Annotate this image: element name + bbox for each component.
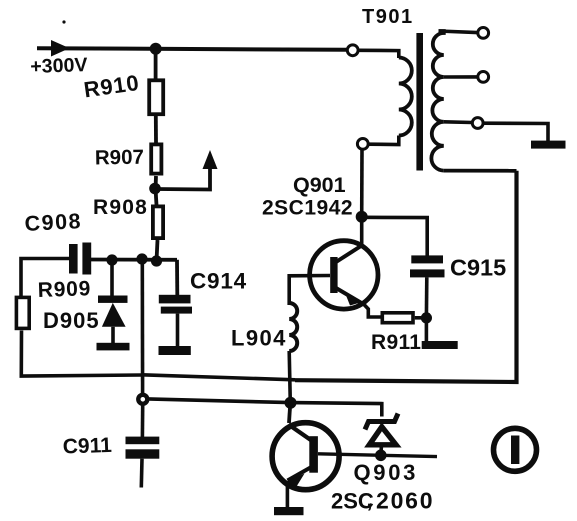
ground (Q903) — [274, 507, 304, 515]
wire: main vertical (bus C down to ring node) — [141, 259, 145, 394]
wire: secondary tap 2 — [444, 75, 478, 79]
wire: secondary tap 3 to ground — [444, 120, 472, 124]
node ring (C911 junction) — [138, 395, 147, 404]
transistor Q903 — [272, 423, 339, 490]
wire: Q901 emitter to R911 — [364, 305, 381, 318]
wire: node B to up-arrow — [155, 160, 210, 190]
ground (D905) — [97, 343, 130, 351]
svg-text:,: , — [367, 487, 373, 512]
wire: bus A (right segment) to right vertical — [295, 171, 517, 382]
node D (L904/Q903 collector/bus B) — [285, 397, 297, 409]
resistor R909 — [16, 297, 29, 328]
wire: primary coil bottom to bottom terminal — [369, 136, 399, 145]
node A (junction top rail / R910) — [150, 43, 162, 55]
T901 primary winding — [399, 58, 412, 136]
svg-text:C908: C908 — [24, 209, 83, 236]
Q901 emitter lead with arrow — [336, 288, 364, 305]
T901 primary top terminal — [347, 45, 358, 56]
wire: R911 to C915 node — [415, 316, 427, 320]
T901 secondary terminal 2 — [478, 72, 489, 83]
svg-text:D905: D905 — [43, 308, 100, 333]
svg-text:Q903: Q903 — [354, 460, 419, 485]
svg-text:R908: R908 — [93, 196, 148, 219]
inductor L904 — [289, 303, 297, 351]
wire: +300V top rail — [37, 48, 347, 50]
wire: Q903 emitter to ground — [286, 482, 290, 508]
capacitor C911 — [126, 437, 160, 445]
wire: R907 to node B — [154, 176, 158, 189]
resistor R908 — [153, 206, 163, 238]
wire: R908 to bus C — [157, 240, 158, 261]
wire: primary top terminal to coil — [358, 50, 399, 58]
svg-text:L904: L904 — [231, 326, 287, 351]
svg-text:R911: R911 — [371, 331, 421, 354]
wire: secondary bottom to right vertical — [444, 169, 517, 173]
wire: bus B (ring to zener corner) — [148, 399, 382, 417]
node Q901 collector — [356, 211, 368, 223]
svg-text:C914: C914 — [190, 269, 247, 294]
wire: node A to R910 — [154, 49, 158, 79]
Q901 collector lead — [336, 245, 363, 262]
Q901 base wire to L904 — [289, 276, 330, 306]
wire: ring down to C911 — [141, 404, 145, 437]
node zener/base — [375, 450, 387, 462]
T901 secondary winding — [431, 31, 443, 171]
wire: secondary top tap — [439, 31, 478, 33]
speck — [62, 20, 65, 23]
capacitor C914 — [159, 295, 191, 304]
transistor Q901 — [310, 241, 378, 309]
diode D905 — [110, 260, 114, 296]
arrow on +300V rail — [42, 42, 67, 56]
wire: R909 bottom to bus A — [21, 331, 142, 377]
node D905 top — [106, 254, 117, 265]
wire: node down to ground — [425, 318, 429, 341]
Q901 base bar — [330, 257, 337, 293]
node C908-left wire to R909 — [21, 259, 69, 297]
ground (secondary tap 3) — [531, 141, 566, 149]
svg-text:R909: R909 — [37, 277, 91, 302]
wire: bus A (left segment) — [142, 375, 295, 380]
Q903 base bar — [309, 436, 318, 473]
svg-text:+300V: +300V — [30, 54, 88, 78]
Q903 base wire with zener node — [318, 454, 437, 457]
wire: node B to R908 — [156, 189, 157, 206]
wire: collector node to C915 — [362, 217, 428, 256]
svg-text:C915: C915 — [450, 255, 506, 281]
svg-text:T901: T901 — [362, 6, 414, 28]
resistor R907 — [151, 144, 161, 173]
wire: node D down to Q903 — [289, 403, 290, 423]
svg-text:2SC1942: 2SC1942 — [262, 197, 353, 220]
wire: L904 bottom through bus A to node D — [289, 351, 290, 403]
wire: R910 to R907 — [154, 116, 158, 143]
node R908 bottom — [151, 255, 162, 266]
resistor R910 — [149, 80, 163, 114]
T901 primary bottom terminal — [357, 139, 368, 150]
T901 secondary terminal 3 — [472, 118, 483, 129]
node main-vertical top — [136, 253, 147, 264]
marker circled 1 — [494, 428, 537, 471]
svg-text:2060: 2060 — [376, 488, 434, 514]
Q903 collector lead — [289, 425, 312, 441]
node B (junction R907/R908/arrow branch) — [149, 183, 161, 195]
Q903 emitter lead with arrow — [288, 468, 311, 481]
ground (C914) — [159, 346, 191, 355]
resistor R911 — [382, 313, 413, 323]
T901 core — [416, 33, 423, 171]
arrow up (to screen) — [203, 150, 218, 169]
capacitor C908 — [69, 244, 78, 274]
zener diode — [365, 414, 398, 430]
wire: primary bottom terminal down to Q901 collector node — [360, 149, 364, 217]
ground (R911) — [422, 341, 458, 349]
wire: bus C (C908 right to C914 corner) — [91, 258, 177, 262]
svg-text:R907: R907 — [95, 146, 144, 170]
wire: bus C corner down to C914 — [175, 260, 179, 295]
capacitor C915 — [411, 255, 443, 263]
svg-text:Q901: Q901 — [293, 173, 346, 197]
svg-text:C911: C911 — [62, 434, 112, 459]
node R911/C915 — [421, 312, 432, 323]
T901 secondary terminal 1 — [478, 28, 489, 39]
